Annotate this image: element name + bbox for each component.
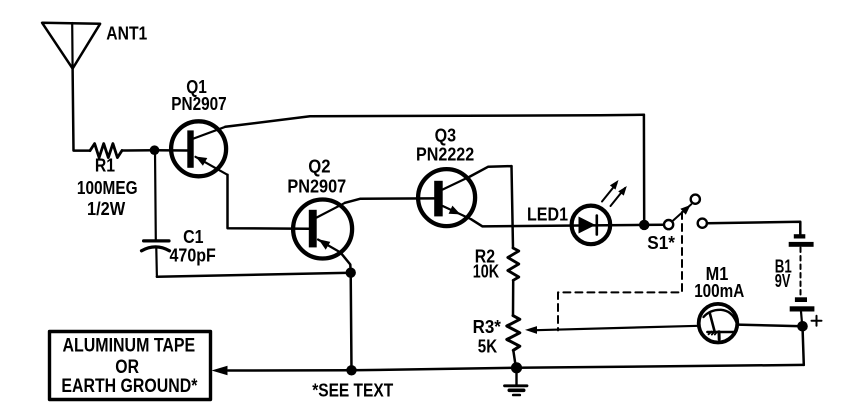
svg-text:S1*: S1*	[647, 233, 675, 253]
resistor R2	[508, 248, 519, 280]
wire meter M1 right to node F	[737, 325, 802, 327]
antenna ANT1	[42, 23, 100, 69]
dashed mechanical link S1 to R3	[558, 212, 682, 330]
ground symbol	[505, 368, 528, 395]
svg-text:9V: 9V	[775, 271, 791, 291]
svg-text:PN2222: PN2222	[416, 144, 474, 164]
svg-text:R3*: R3*	[473, 317, 501, 337]
wire C1 bottom to node B	[157, 273, 351, 277]
wire R2 branch vertical	[512, 166, 514, 248]
svg-text:5K: 5K	[478, 337, 497, 357]
wire node A to Q1 base	[155, 149, 188, 152]
battery B1	[789, 234, 815, 326]
node C junction dot	[346, 365, 356, 375]
svg-text:PN2907: PN2907	[171, 94, 226, 114]
svg-text:C1: C1	[183, 227, 203, 247]
transistor Q3	[418, 169, 475, 226]
svg-text:Q2: Q2	[308, 157, 330, 177]
wire Q2 emitter down to node B	[341, 253, 351, 273]
wire R1 to node A	[122, 149, 155, 152]
svg-text:ANT1: ANT1	[106, 23, 147, 43]
capacitor C1	[142, 150, 170, 277]
svg-text:100MEG: 100MEG	[77, 178, 138, 198]
svg-text:R1: R1	[95, 155, 115, 175]
meter M1	[699, 304, 738, 343]
arrow into ground box	[212, 366, 228, 376]
svg-text:Q3: Q3	[435, 126, 457, 146]
wire top rail down to LED node	[643, 115, 646, 225]
switch S1	[664, 195, 707, 230]
transistor Q1	[171, 121, 227, 176]
wire Q1 collector top rail	[225, 115, 644, 127]
node D junction dot	[511, 362, 522, 373]
wire R3 to ground node D	[513, 350, 516, 367]
wire R2 to R3	[512, 280, 515, 315]
wire Q1 emitter down and right to Q2 base	[228, 175, 309, 229]
battery plus sign	[812, 316, 822, 326]
box aluminum tape / earth ground	[50, 332, 211, 400]
wire Q3 emitter to LED	[471, 219, 644, 226]
svg-text:EARTH GROUND*: EARTH GROUND*	[61, 376, 198, 397]
svg-text:OR: OR	[115, 357, 139, 378]
wire antenna lead to R1	[73, 69, 90, 151]
wire node B down to bottom rail node C	[349, 273, 352, 371]
svg-text:1/2W: 1/2W	[87, 199, 125, 219]
node B junction dot	[346, 268, 356, 278]
node E junction dot at LED/S1	[639, 220, 649, 230]
node A junction dot	[150, 145, 160, 155]
svg-text:PN2907: PN2907	[287, 177, 346, 197]
svg-text:100mA: 100mA	[694, 281, 744, 301]
svg-text:LED1: LED1	[527, 205, 568, 225]
wire node F down to bottom rail	[803, 326, 804, 365]
wire node E to S1	[644, 223, 664, 226]
svg-text:470pF: 470pF	[170, 246, 216, 266]
svg-text:ALUMINUM TAPE: ALUMINUM TAPE	[63, 335, 196, 356]
node F junction dot battery plus	[797, 321, 808, 332]
wire Q2 collector to Q3 base	[345, 198, 434, 202]
resistor R1	[90, 144, 122, 158]
svg-text:10K: 10K	[473, 262, 499, 282]
wire Q3 collector up to R2 branch corner	[470, 166, 512, 176]
potentiometer R3	[507, 316, 699, 351]
svg-text:*SEE TEXT: *SEE TEXT	[312, 380, 393, 400]
transistor Q2	[293, 200, 352, 259]
LED LED1	[572, 180, 627, 244]
bottom rail wire	[228, 365, 804, 371]
wire S1 to battery B1	[707, 222, 800, 234]
